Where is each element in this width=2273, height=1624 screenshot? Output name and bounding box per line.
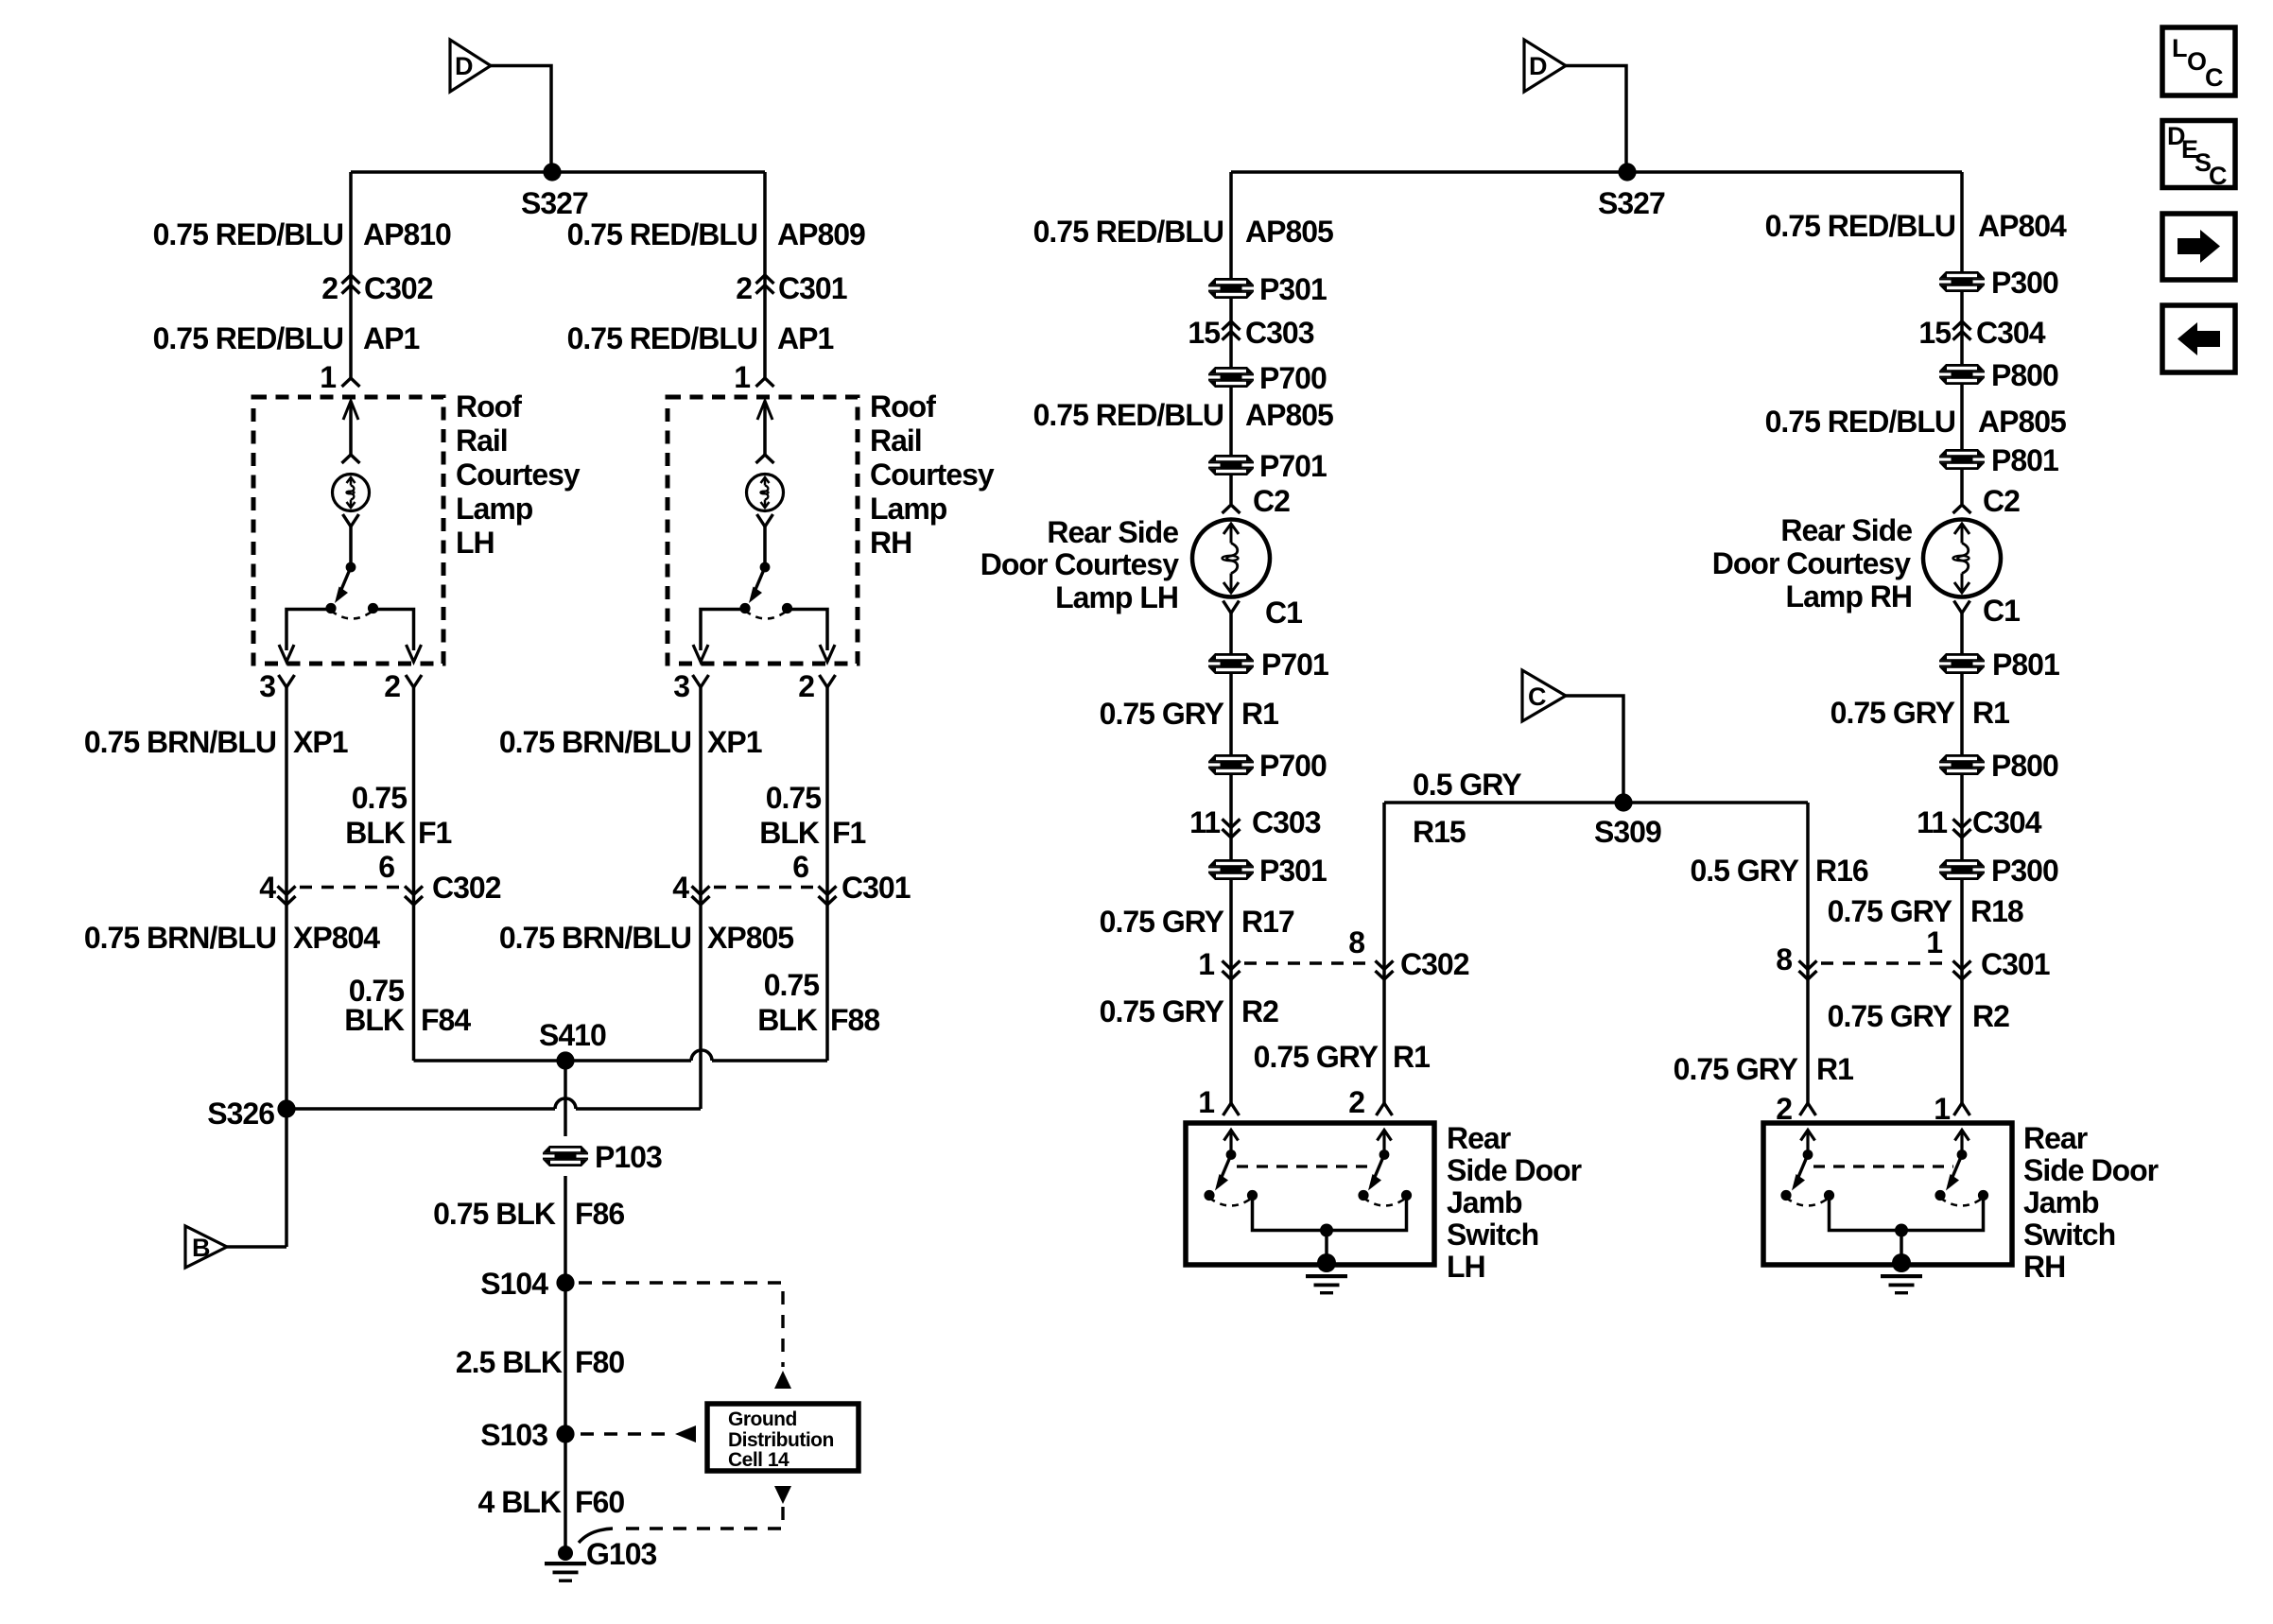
svg-text:LH: LH [1447, 1250, 1485, 1284]
Rear Side Door Jamb Switch RH box [1763, 1123, 2012, 1265]
lamp LH pin C1 [1223, 601, 1240, 613]
svg-text:4: 4 [259, 871, 276, 905]
jamb switch RH dashed arcs [1786, 1198, 1830, 1206]
connector P300 [1939, 271, 1985, 292]
svg-text:Rear: Rear [1447, 1121, 1511, 1155]
lamp RH switch outlet wires w/ arrows [693, 610, 835, 663]
svg-text:S410: S410 [539, 1018, 606, 1052]
jamb switch LH ground wire [1325, 1231, 1328, 1258]
svg-text:AP1: AP1 [363, 321, 419, 355]
splice S309 [1614, 793, 1632, 811]
svg-text:11: 11 [1917, 805, 1947, 839]
svg-text:AP1: AP1 [777, 321, 833, 355]
connector P301 (2) [1208, 859, 1254, 880]
connector P801 [1939, 449, 1985, 470]
svg-text:F1: F1 [418, 816, 452, 850]
svg-text:BLK: BLK [344, 1003, 405, 1037]
svg-text:2.5 BLK: 2.5 BLK [456, 1345, 563, 1379]
svg-text:Rear Side: Rear Side [1780, 513, 1912, 547]
svg-text:Ground: Ground [728, 1408, 797, 1430]
lamp LH door switch blade [335, 562, 356, 603]
svg-text:1: 1 [1198, 947, 1214, 981]
svg-text:R2: R2 [1241, 994, 1278, 1028]
svg-text:AP809: AP809 [777, 217, 865, 251]
connector C303 pin 15 [1223, 321, 1241, 340]
svg-text:15: 15 [1188, 316, 1220, 350]
off-page connector D (left) [450, 40, 491, 92]
svg-text:C: C [2205, 63, 2224, 92]
svg-text:R1: R1 [1241, 697, 1278, 731]
wire S309 horizontal [1384, 801, 1808, 804]
svg-text:C304: C304 [1976, 316, 2046, 350]
svg-text:1: 1 [734, 360, 750, 394]
svg-text:6: 6 [792, 850, 808, 884]
svg-text:C301: C301 [842, 871, 911, 905]
svg-text:4 BLK: 4 BLK [478, 1485, 562, 1519]
svg-text:P301: P301 [1259, 854, 1327, 888]
jamb switch RH ground wire [1900, 1231, 1903, 1258]
connector C302 pins 1/8 row [1198, 925, 1469, 981]
svg-text:BLK: BLK [759, 816, 820, 850]
svg-text:P800: P800 [1991, 358, 2058, 392]
Roof Rail Courtesy Lamp LH dashed box [253, 397, 443, 664]
svg-text:Door Courtesy: Door Courtesy [1712, 546, 1911, 580]
wire from C to S309 [1566, 696, 1623, 803]
svg-text:C302: C302 [364, 271, 433, 305]
svg-text:0.75 BRN/BLU: 0.75 BRN/BLU [499, 725, 691, 759]
connector C304 pin 15 [1953, 321, 1971, 340]
svg-text:AP805: AP805 [1245, 215, 1333, 249]
Rear Side Door Jamb Switch LH box [1186, 1123, 1434, 1265]
splice S103 [556, 1425, 574, 1443]
svg-text:0.75 RED/BLU: 0.75 RED/BLU [567, 321, 757, 355]
connector P701 [1208, 455, 1254, 475]
svg-text:Rear Side: Rear Side [1047, 515, 1178, 549]
connector P801 (2) [1939, 653, 1985, 674]
svg-text:0.75 GRY: 0.75 GRY [1831, 696, 1955, 730]
svg-text:P801: P801 [1992, 648, 2059, 682]
icon back arrow [2162, 305, 2235, 372]
svg-text:0.75: 0.75 [352, 781, 407, 815]
svg-text:C301: C301 [1981, 947, 2050, 981]
jamb switch LH contacts [1204, 1190, 1214, 1201]
svg-text:0.75 GRY: 0.75 GRY [1100, 994, 1224, 1028]
svg-text:R16: R16 [1815, 854, 1868, 888]
connector P301 [1208, 278, 1254, 299]
svg-text:L: L [2172, 34, 2188, 62]
wire R16 down to jamb switch RH [1806, 803, 1810, 1103]
svg-text:XP805: XP805 [707, 921, 793, 955]
svg-text:O: O [2187, 47, 2207, 76]
connector C301 pin 2 [756, 275, 774, 294]
svg-text:0.75 BRN/BLU: 0.75 BRN/BLU [84, 921, 276, 955]
svg-text:2: 2 [1348, 1085, 1364, 1119]
svg-text:F80: F80 [575, 1345, 624, 1379]
svg-text:AP805: AP805 [1978, 405, 2066, 439]
jamb switch LH common wire [1253, 1196, 1407, 1231]
svg-text:0.75 RED/BLU: 0.75 RED/BLU [1033, 215, 1223, 249]
connector C302 pins 4/6 row [259, 850, 501, 905]
svg-text:0.75 RED/BLU: 0.75 RED/BLU [153, 217, 343, 251]
svg-text:0.75 GRY: 0.75 GRY [1254, 1040, 1379, 1074]
svg-text:0.75 RED/BLU: 0.75 RED/BLU [153, 321, 343, 355]
lamp LH switch outlet wires w/ arrows [279, 610, 422, 663]
connector P701 (2) [1208, 653, 1254, 674]
connector P800 (2) [1939, 754, 1985, 775]
svg-text:P300: P300 [1991, 266, 2058, 300]
connector P800 [1939, 364, 1985, 385]
svg-text:XP804: XP804 [293, 921, 380, 955]
wire F1 (right lamp pin2 down) [825, 687, 829, 1061]
svg-text:0.75 RED/BLU: 0.75 RED/BLU [1033, 398, 1223, 432]
connector C304 pin 11 [1953, 819, 1971, 838]
dashed route S104 to ground distribution [579, 1283, 791, 1389]
connector C302 pin 2 [342, 275, 360, 294]
svg-text:1: 1 [320, 360, 336, 394]
svg-text:S104: S104 [480, 1267, 548, 1301]
jamb switch RH blade 2 [1946, 1131, 1969, 1191]
svg-text:2: 2 [321, 271, 338, 305]
svg-text:2: 2 [798, 669, 814, 703]
splice S104 [556, 1273, 574, 1291]
svg-text:F88: F88 [830, 1003, 879, 1037]
svg-text:Lamp: Lamp [870, 492, 947, 526]
svg-text:3: 3 [673, 669, 689, 703]
svg-text:R17: R17 [1241, 905, 1294, 939]
svg-text:Rear: Rear [2023, 1121, 2088, 1155]
svg-text:P801: P801 [1991, 443, 2058, 477]
wire lamp RH to jamb switch [1960, 613, 1964, 1104]
wire B to S326 drop [227, 1245, 286, 1249]
lamp RH door switch blade [749, 562, 770, 603]
svg-text:Jamb: Jamb [2023, 1185, 2099, 1219]
connector P103 [543, 1146, 588, 1166]
icon DESC [2162, 121, 2235, 191]
svg-text:G103: G103 [586, 1537, 656, 1571]
lamp LH internal feed arrow [342, 401, 360, 463]
svg-text:8: 8 [1776, 942, 1792, 976]
svg-text:B: B [192, 1234, 211, 1262]
svg-text:6: 6 [378, 850, 394, 884]
svg-text:1: 1 [1926, 925, 1942, 959]
icon forward arrow [2162, 214, 2235, 280]
svg-text:Side Door: Side Door [1447, 1153, 1582, 1187]
lamp RH bulb lower pin [757, 514, 773, 564]
wire AP810 vertical [349, 172, 353, 379]
svg-text:0.75 GRY: 0.75 GRY [1828, 894, 1952, 928]
wire bus S327 horizontal (right) [1231, 170, 1962, 174]
jamb switch LH common junction [1320, 1224, 1333, 1237]
svg-text:C2: C2 [1253, 484, 1290, 518]
Rear Side Door Courtesy Lamp LH bulb [1192, 520, 1270, 597]
svg-text:AP810: AP810 [363, 217, 451, 251]
svg-text:RH: RH [870, 526, 911, 560]
svg-text:C303: C303 [1245, 316, 1314, 350]
svg-text:P800: P800 [1991, 749, 2058, 783]
svg-text:AP804: AP804 [1978, 209, 2067, 243]
svg-text:C2: C2 [1983, 484, 2020, 518]
svg-text:0.75 BLK: 0.75 BLK [433, 1197, 556, 1231]
svg-text:C1: C1 [1983, 594, 2020, 628]
svg-text:R18: R18 [1970, 894, 2023, 928]
svg-text:P700: P700 [1259, 361, 1327, 395]
svg-text:0.75: 0.75 [766, 781, 821, 815]
svg-text:0.75 RED/BLU: 0.75 RED/BLU [1765, 405, 1955, 439]
svg-text:C302: C302 [432, 871, 501, 905]
svg-text:0.75: 0.75 [764, 968, 819, 1002]
svg-text:XP1: XP1 [293, 725, 348, 759]
svg-text:Roof: Roof [870, 389, 936, 423]
svg-text:2: 2 [736, 271, 752, 305]
wire from D to S327 [1566, 66, 1626, 173]
off-page connector C [1522, 670, 1566, 721]
svg-text:Switch: Switch [2023, 1218, 2115, 1252]
lamp LH switch dashed arc [331, 611, 373, 619]
svg-text:0.75 BRN/BLU: 0.75 BRN/BLU [499, 921, 691, 955]
connector P700 [1208, 367, 1254, 388]
jamb switch RH case ground [1881, 1253, 1922, 1294]
connector P700 (2) [1208, 754, 1254, 775]
splice S326 [277, 1099, 295, 1117]
svg-text:XP1: XP1 [707, 725, 762, 759]
lamp RH pin C1 [1954, 601, 1970, 613]
jamb switch LH dashed arcs [1209, 1198, 1253, 1206]
svg-text:P701: P701 [1259, 449, 1327, 483]
svg-text:0.75 GRY: 0.75 GRY [1100, 905, 1224, 939]
svg-text:BLK: BLK [757, 1003, 818, 1037]
svg-text:AP805: AP805 [1245, 398, 1333, 432]
svg-text:11: 11 [1189, 805, 1220, 839]
svg-text:Rail: Rail [870, 423, 922, 458]
svg-text:Courtesy: Courtesy [870, 458, 995, 492]
off-page connector D (right) [1524, 40, 1566, 92]
svg-text:RH: RH [2023, 1250, 2065, 1284]
lamp RH switch contacts [739, 603, 750, 613]
Rear Side Door Courtesy Lamp RH bulb [1923, 520, 2001, 597]
svg-text:Rail: Rail [456, 423, 508, 458]
svg-text:C304: C304 [1972, 805, 2042, 839]
svg-text:D: D [455, 52, 474, 80]
lamp LH switch contacts [325, 603, 336, 613]
svg-text:P700: P700 [1259, 749, 1327, 783]
svg-text:C: C [2209, 162, 2228, 190]
svg-text:0.75 BRN/BLU: 0.75 BRN/BLU [84, 725, 276, 759]
jamb switch RH common junction [1895, 1224, 1908, 1237]
svg-text:0.75 RED/BLU: 0.75 RED/BLU [1765, 209, 1955, 243]
svg-text:F86: F86 [575, 1197, 624, 1231]
svg-text:R1: R1 [1393, 1040, 1430, 1074]
svg-text:P701: P701 [1261, 648, 1328, 682]
svg-text:S327: S327 [521, 186, 588, 220]
svg-text:2: 2 [384, 669, 400, 703]
svg-text:R1: R1 [1972, 696, 2009, 730]
svg-text:8: 8 [1348, 925, 1364, 959]
Ground Distribution Cell 14 box [707, 1404, 859, 1471]
icon LOC [2162, 27, 2235, 95]
splice S327 (right) [1618, 163, 1636, 181]
wire S326 down to B [285, 1109, 288, 1247]
svg-text:S309: S309 [1594, 815, 1661, 849]
wire P103 down [564, 1176, 567, 1548]
connector P300 (2) [1939, 859, 1985, 880]
svg-text:LH: LH [456, 526, 495, 560]
jamb switch LH case ground [1306, 1253, 1347, 1294]
connector C303 pin 11 [1223, 819, 1241, 838]
svg-text:Jamb: Jamb [1447, 1185, 1522, 1219]
off-page connector B [185, 1226, 227, 1268]
svg-text:Side Door: Side Door [2023, 1153, 2159, 1187]
svg-text:Courtesy: Courtesy [456, 458, 581, 492]
wire F1 (left lamp pin2 down) [412, 687, 416, 1061]
connector C301 pins 8/1 row [1776, 925, 2050, 981]
svg-text:S327: S327 [1598, 186, 1665, 220]
svg-text:Lamp RH: Lamp RH [1786, 579, 1912, 613]
lamp RH internal feed arrow [756, 401, 774, 463]
svg-text:D: D [1529, 52, 1548, 80]
splice S410 [556, 1051, 574, 1069]
svg-text:R1: R1 [1816, 1052, 1853, 1086]
svg-text:F84: F84 [421, 1003, 471, 1037]
svg-text:Cell 14: Cell 14 [728, 1449, 789, 1471]
wire AP804 vertical (lamp RH branch) [1960, 172, 1964, 504]
svg-text:R15: R15 [1413, 815, 1466, 849]
jamb switch RH contacts [1780, 1190, 1791, 1201]
ground G103 [545, 1529, 656, 1582]
lamp LH bulb [333, 475, 370, 511]
svg-text:F60: F60 [575, 1485, 624, 1519]
wire from D to S327 [491, 66, 551, 173]
wire C302 pin8 to jamb switch LH [1382, 803, 1386, 1103]
jamb switch RH common wire [1830, 1196, 1984, 1231]
svg-text:0.75 GRY: 0.75 GRY [1674, 1052, 1798, 1086]
svg-text:Lamp LH: Lamp LH [1055, 580, 1178, 614]
wire bus S327 horizontal [351, 170, 765, 174]
jamb switch RH gang dashed link [1813, 1165, 1953, 1167]
svg-text:C302: C302 [1400, 947, 1469, 981]
svg-text:Switch: Switch [1447, 1218, 1538, 1252]
svg-text:C: C [1528, 682, 1547, 711]
svg-text:15: 15 [1918, 316, 1951, 350]
svg-text:1: 1 [1198, 1085, 1214, 1119]
svg-text:Lamp: Lamp [456, 492, 533, 526]
lamp RH switch dashed arc [745, 611, 788, 619]
svg-text:3: 3 [259, 669, 275, 703]
svg-text:0.5 GRY: 0.5 GRY [1690, 854, 1798, 888]
connector C301 pins 4/6 row [672, 850, 911, 905]
svg-text:P301: P301 [1259, 272, 1327, 306]
wire S326 horizontal with hop over P103 drop [286, 1098, 701, 1109]
svg-text:0.75 GRY: 0.75 GRY [1100, 697, 1224, 731]
svg-text:S103: S103 [480, 1418, 547, 1452]
svg-text:4: 4 [672, 871, 689, 905]
wire AP805 vertical (lamp LH branch) [1229, 172, 1233, 504]
jamb switch LH gang dashed link [1237, 1165, 1376, 1167]
wire XP1 (right lamp pin3 down) [699, 687, 703, 1109]
svg-text:Door Courtesy: Door Courtesy [980, 547, 1179, 581]
svg-text:Distribution: Distribution [728, 1429, 834, 1451]
svg-text:BLK: BLK [345, 816, 406, 850]
svg-text:0.75 RED/BLU: 0.75 RED/BLU [567, 217, 757, 251]
svg-text:C303: C303 [1252, 805, 1321, 839]
svg-text:C1: C1 [1265, 596, 1302, 630]
svg-text:0.5 GRY: 0.5 GRY [1413, 768, 1521, 802]
jamb switch LH blade 1 [1215, 1131, 1239, 1191]
splice S327 (left) [543, 163, 561, 181]
dashed route S103 to ground distribution [581, 1425, 696, 1443]
svg-text:R2: R2 [1972, 999, 2009, 1033]
svg-text:S326: S326 [207, 1097, 274, 1131]
jamb switch RH blade 1 [1792, 1131, 1815, 1191]
jamb switch LH blade 2 [1368, 1131, 1392, 1191]
Roof Rail Courtesy Lamp RH dashed box [668, 397, 858, 664]
svg-text:Roof: Roof [456, 389, 522, 423]
wire S410 horizontal with hop over XP805 [414, 1050, 828, 1061]
wire S410 to P103 [564, 1061, 567, 1136]
svg-text:0.75 GRY: 0.75 GRY [1828, 999, 1952, 1033]
lamp RH bulb [747, 475, 784, 511]
svg-text:C301: C301 [778, 271, 847, 305]
wire AP809 vertical [763, 172, 767, 379]
wire lamp LH to jamb switch [1229, 613, 1233, 1104]
dashed route ground distribution to G103 [616, 1486, 791, 1529]
svg-text:P103: P103 [595, 1140, 662, 1174]
svg-text:F1: F1 [832, 816, 866, 850]
svg-text:P300: P300 [1991, 854, 2058, 888]
lamp LH bulb lower pin [343, 514, 359, 564]
wire XP1 (left lamp pin3 down) [285, 687, 288, 1109]
